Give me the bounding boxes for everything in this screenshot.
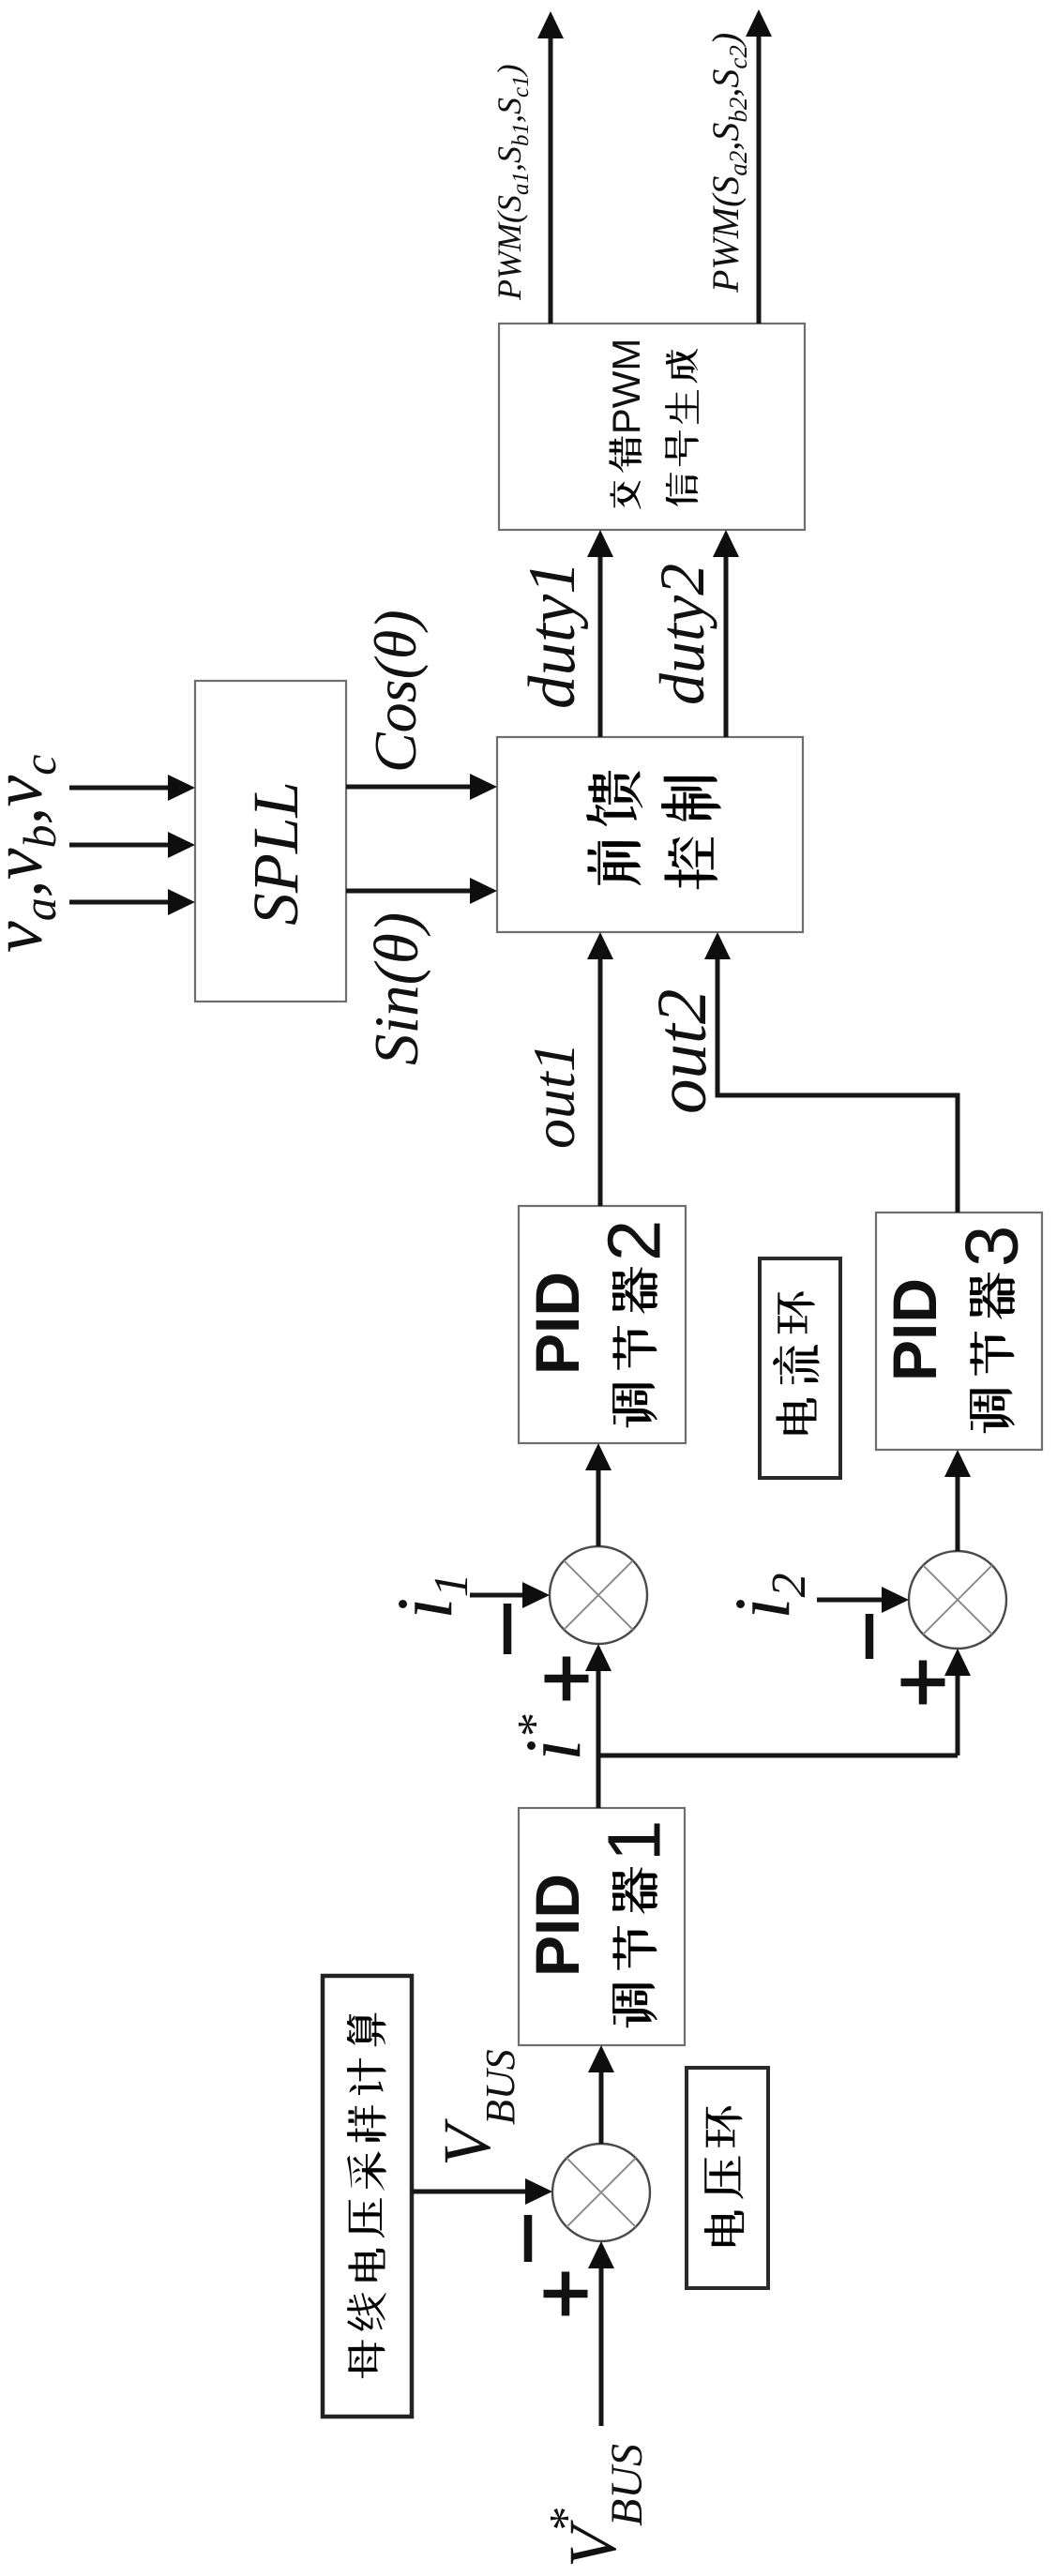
text: 调节器2 line in U2 (593, 1220, 676, 1428)
svg-text:PID: PID (522, 1272, 592, 1375)
label box: voltage loop (电压环) (687, 2068, 768, 2288)
minus sign at S2 (866, 1614, 874, 1659)
wire: duty1 from U5 to U6 (598, 554, 603, 737)
plus sign at S1 (545, 1657, 589, 1701)
label: duty2 (646, 564, 717, 705)
label box: current loop (电流环) (760, 1258, 840, 1478)
label: out1 (521, 1042, 587, 1149)
wire: vc input to SPLL (69, 900, 171, 905)
label: PWM(Sa2,Sb2,Sc2) (704, 33, 752, 294)
label box: bus voltage sampling calculation (母线电压采样计算) (323, 1976, 412, 2417)
text: 调节器3 line in U3 (950, 1226, 1034, 1434)
label: PWM(Sa1,Sb1,Sc1) (491, 64, 534, 301)
wire: i1 into S1 (470, 1593, 525, 1598)
wire: Cos(theta) from SPLL to U5 (346, 785, 473, 790)
block: PID regulator 3 (PID调节器3) U3 (876, 1213, 1042, 1450)
svg-text:PID: PID (522, 1874, 592, 1977)
svg-text:2: 2 (593, 1220, 676, 1262)
wire: PWM output 2 up from U6 (757, 34, 762, 324)
svg-text:3: 3 (950, 1226, 1034, 1268)
label: duty1 (516, 561, 589, 709)
summing junction S1 (current loop 1) (550, 1546, 647, 1644)
label: Sin(theta) (362, 912, 431, 1065)
wire: out1 from U2 to U5 (598, 957, 603, 1206)
text: PID line in U2 (522, 1272, 592, 1375)
wire: S2 output to U3 (956, 1475, 960, 1551)
wire: va input to SPLL (69, 786, 171, 791)
wire: out2 from U3 to U5 (717, 957, 958, 1213)
label: i* reference (508, 1714, 597, 1761)
label: Cos(theta) (362, 610, 429, 773)
text: PID line in U1 (522, 1874, 592, 1977)
text: PID line in U3 (880, 1278, 949, 1381)
text: 控制 line in U5 (661, 776, 721, 889)
label: SPLL text (240, 781, 311, 925)
label: i2 (718, 1573, 816, 1619)
text: 调节器1 line in U1 (593, 1820, 676, 2028)
svg-text:duty2: duty2 (646, 564, 717, 705)
wire: VBUS from sampling block to S3 (412, 2190, 527, 2194)
wire: vb input to SPLL (69, 843, 171, 848)
block: feedforward control (前馈控制) U5 (497, 737, 803, 932)
wire: i* branch to S2 (596, 1754, 958, 1758)
minus sign at S1 (504, 1604, 512, 1654)
label: VBUS feedback (430, 2049, 523, 2166)
svg-text:1: 1 (593, 1820, 676, 1862)
plus sign at S2 (901, 1661, 945, 1705)
text: 母线电压采样计算 label (347, 2013, 386, 2379)
wire: Sin(theta) from SPLL to U5 (346, 889, 473, 894)
text: 电流环 label (773, 1291, 819, 1434)
wire: i* from U1 to S1 (596, 1669, 601, 1808)
label: va,vb,vc inputs (0, 755, 66, 953)
wire: S1 output to U2 (596, 1469, 601, 1546)
svg-text:PWM: PWM (604, 339, 648, 435)
svg-text:SPLL: SPLL (240, 781, 311, 925)
label: i1 (381, 1573, 478, 1619)
block: PID regulator 1 (PID调节器1) U1 (519, 1808, 685, 2045)
wire: S3 output to U1 (599, 2071, 604, 2144)
block: interleaved PWM signal generation (交错PWM信号生成) U6 (499, 324, 805, 530)
wire: i2 into S2 (817, 1598, 884, 1603)
summing junction S3 (voltage loop) (552, 2144, 650, 2241)
text: 信号生成 line in U6 (665, 349, 699, 506)
svg-text:va,vb,vc: va,vb,vc (0, 755, 66, 953)
wire: V*BUS input to S3 (599, 2267, 604, 2426)
minus sign at S3 (524, 2215, 533, 2262)
svg-text:out1: out1 (521, 1042, 587, 1149)
text: 交错PWM line in U6 (604, 339, 648, 509)
svg-text:out2: out2 (643, 989, 721, 1114)
svg-text:Sin(θ): Sin(θ) (362, 912, 431, 1065)
svg-text:duty1: duty1 (516, 561, 589, 709)
svg-text:Cos(θ): Cos(θ) (362, 610, 429, 773)
text: 电压环 label (704, 2106, 744, 2246)
summing junction S2 (current loop 2) (909, 1551, 1006, 1649)
block: PID regulator 2 (PID调节器2) U2 (519, 1206, 686, 1443)
label: out2 (643, 989, 721, 1114)
svg-text:PID: PID (880, 1278, 949, 1381)
block: SPLL U4 (195, 681, 346, 1002)
label: V*BUS reference (540, 2444, 652, 2568)
wire: PWM output 1 up from U6 (549, 36, 553, 324)
text: 前馈 line in U5 (586, 771, 642, 885)
plus sign at S3 (544, 2272, 588, 2316)
wire: duty2 from U5 to U6 (724, 554, 729, 737)
